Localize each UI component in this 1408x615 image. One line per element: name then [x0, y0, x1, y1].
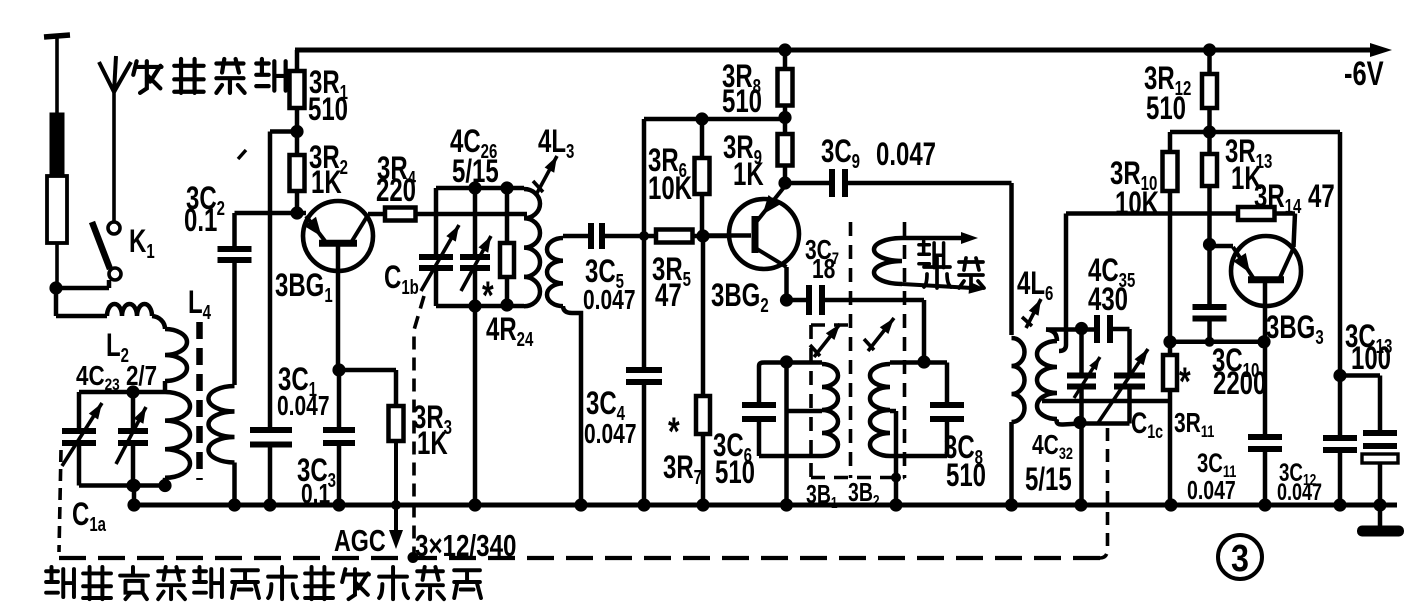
svg-text:0.047: 0.047	[583, 285, 636, 316]
svg-text:0.1: 0.1	[184, 202, 217, 238]
svg-text:510: 510	[946, 457, 986, 493]
svg-text:3×12/340: 3×12/340	[415, 528, 516, 563]
svg-text:430: 430	[1088, 281, 1128, 317]
svg-text:510: 510	[1146, 90, 1186, 126]
svg-text:510: 510	[308, 91, 348, 127]
svg-text:10K: 10K	[648, 170, 692, 206]
svg-text:220: 220	[376, 172, 416, 208]
svg-text:0.047: 0.047	[1187, 475, 1236, 504]
svg-text:1K: 1K	[417, 425, 448, 461]
svg-text:18: 18	[812, 254, 835, 285]
svg-text:0.1: 0.1	[301, 479, 330, 510]
svg-text:0.047: 0.047	[277, 391, 330, 422]
svg-text:0.047: 0.047	[876, 136, 936, 172]
svg-text:47: 47	[655, 277, 682, 313]
svg-text:0.047: 0.047	[584, 419, 637, 450]
svg-text:510: 510	[715, 454, 755, 490]
svg-text:1K: 1K	[311, 164, 342, 200]
svg-text:-6V: -6V	[1344, 56, 1384, 93]
svg-text:510: 510	[722, 83, 762, 119]
svg-text:5/15: 5/15	[452, 153, 499, 189]
svg-text:1K: 1K	[733, 156, 764, 192]
svg-text:AGC: AGC	[334, 523, 386, 558]
svg-text:3BG3: 3BG3	[1266, 309, 1324, 349]
svg-text:5/15: 5/15	[1025, 461, 1072, 497]
svg-text:10K: 10K	[1115, 185, 1159, 221]
svg-text:2200: 2200	[1213, 365, 1266, 401]
svg-text:100: 100	[1351, 340, 1391, 376]
svg-text:*: *	[1179, 360, 1191, 404]
svg-text:0.047: 0.047	[1277, 480, 1322, 506]
svg-text:3: 3	[1231, 538, 1249, 580]
svg-text:3BG2: 3BG2	[711, 277, 769, 317]
svg-text:3BG1: 3BG1	[275, 267, 333, 307]
svg-text:*: *	[668, 410, 680, 454]
